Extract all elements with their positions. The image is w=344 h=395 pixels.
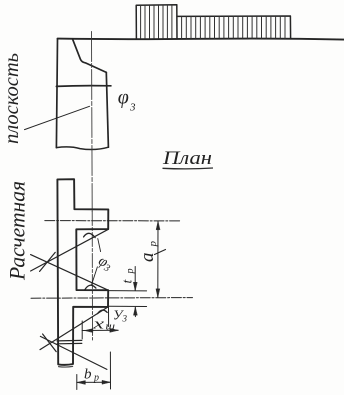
- svg-text:b: b: [84, 367, 92, 383]
- svg-text:План: План: [162, 148, 212, 169]
- svg-text:p: p: [93, 373, 99, 384]
- svg-text:ш: ш: [106, 322, 116, 333]
- svg-text:t: t: [121, 279, 136, 284]
- svg-text:a: a: [137, 253, 158, 263]
- svg-text:p: p: [147, 241, 159, 248]
- svg-text:плоскость: плоскость: [1, 53, 23, 144]
- svg-text:3: 3: [129, 102, 136, 114]
- svg-text:Расчетная: Расчетная: [5, 181, 30, 281]
- svg-text:p: p: [125, 269, 136, 275]
- svg-text:φ: φ: [118, 87, 129, 109]
- svg-text:x: x: [92, 317, 105, 333]
- svg-text:3: 3: [122, 314, 128, 324]
